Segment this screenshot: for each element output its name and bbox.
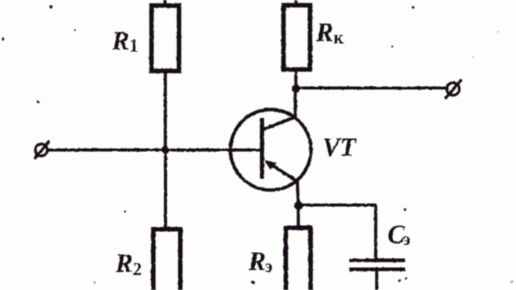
svg-text:R: R: [115, 249, 133, 278]
svg-text:э: э: [403, 229, 411, 249]
svg-text:R: R: [315, 18, 333, 47]
svg-text:R: R: [111, 26, 129, 55]
svg-text:R: R: [248, 247, 266, 276]
svg-text:VT: VT: [323, 133, 357, 162]
svg-text:1: 1: [130, 35, 139, 55]
svg-text:2: 2: [133, 259, 142, 279]
svg-text:э: э: [265, 256, 273, 276]
svg-text:к: к: [334, 28, 345, 48]
